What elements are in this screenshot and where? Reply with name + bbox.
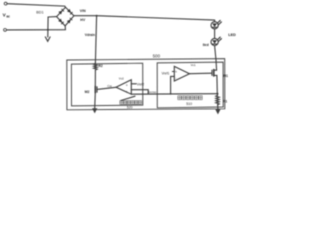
svg-text:510: 510: [186, 102, 192, 106]
diode D-TL of BD1: [58, 9, 64, 15]
wire R2 to M2 drain: [94, 70, 96, 86]
bridge rectifier BD1 diamond: [57, 7, 74, 26]
svg-text:M1: M1: [223, 74, 228, 78]
wire M2 source down: [94, 92, 97, 108]
wire between LEDs: [214, 29, 216, 39]
label VIN: [80, 9, 86, 13]
wire rail corner down to LED D1: [214, 20, 216, 22]
LED D1: [211, 22, 218, 29]
LED D1 emission arrows: [217, 21, 220, 24]
label LED: [228, 33, 236, 37]
svg-text:Vref2: Vref2: [137, 82, 145, 86]
terminal T2 (AC input bottom): [4, 29, 7, 32]
label 500: [153, 53, 161, 58]
sub-block box 510: [157, 62, 223, 108]
svg-text:R2: R2: [99, 64, 103, 68]
wire Vdrain vertical: [95, 16, 96, 63]
svg-text:-: -: [175, 76, 176, 80]
wire from T1 to bridge top vertex: [7, 4, 65, 8]
IC outer box 500: [67, 59, 225, 110]
label (chinese) current-limit control unit: [120, 101, 142, 105]
node junction dot M1 source / R1 / rail: [216, 93, 218, 95]
ground arrow (open): [45, 37, 50, 41]
op-amp OP2 plus input mark: [126, 83, 128, 87]
label Vref1: [162, 72, 170, 76]
resistor R2: [94, 63, 97, 71]
wire M2 gate to op-amp output: [97, 87, 116, 89]
svg-text:Vdrain: Vdrain: [85, 33, 95, 37]
op-amp OP2 minus input mark: [126, 89, 127, 93]
node junction J2 on VIN rail: [96, 15, 98, 17]
wire OP2 plus input stub: [131, 83, 136, 85]
wire OP1 minus input down to sense rail: [171, 76, 175, 94]
svg-text:Vc2: Vc2: [119, 76, 124, 80]
label Vdrain: [85, 33, 95, 37]
label Vref2: [137, 82, 145, 86]
wire vertical from bridge left vertex net down to ground: [47, 17, 49, 37]
wire R1 to ground: [217, 105, 219, 109]
ground arrow under M2: [92, 108, 97, 113]
label M1: [223, 74, 228, 78]
transistor M1: [211, 70, 213, 75]
label Vc2: [119, 76, 124, 80]
label R2: [99, 64, 103, 68]
svg-text:+: +: [126, 83, 128, 87]
node junction J1 (neutral/ground): [47, 29, 49, 31]
svg-text:LED: LED: [228, 33, 236, 37]
svg-text:R1: R1: [223, 100, 227, 104]
label Vac: [3, 13, 11, 19]
op-amp OP1 plus input mark: [175, 70, 177, 74]
wire OP2 minus input to sense rail: [131, 90, 148, 94]
transistor M2: [94, 86, 96, 92]
wire Vref1 stub to OP1 plus input: [172, 71, 174, 73]
wire M1 source to junction: [214, 75, 218, 93]
svg-text:+: +: [175, 70, 177, 74]
label Iled: [203, 43, 209, 47]
label Vc1: [191, 63, 196, 67]
svg-text:BD1: BD1: [36, 10, 43, 14]
label (chinese) constant-current control unit: [178, 96, 203, 100]
svg-text:Vc1: Vc1: [191, 63, 196, 67]
wire M1 drain from LED string: [214, 46, 217, 71]
wire stub to bridge left vertex: [48, 16, 57, 18]
label BD1: [36, 10, 43, 14]
svg-text:Iled: Iled: [203, 43, 209, 47]
svg-text:Sense: Sense: [148, 90, 157, 94]
label M2: [85, 90, 90, 94]
svg-text:500: 500: [153, 53, 161, 58]
LED D2: [211, 38, 218, 45]
svg-text:-: -: [126, 89, 127, 93]
label Sense: [148, 90, 157, 94]
diode D-TR of BD1: [67, 9, 73, 15]
diode D-BR of BD1: [67, 17, 73, 23]
label HV: [80, 18, 86, 22]
wire OP1 output to M1 gate: [190, 72, 213, 75]
ground arrow under R1: [215, 109, 220, 114]
wire current sense rail: [131, 93, 217, 96]
svg-text:HV: HV: [80, 18, 86, 22]
LED D2 emission arrows: [217, 37, 220, 40]
label 510: [186, 102, 192, 106]
svg-text:Vref1: Vref1: [162, 72, 170, 76]
op-amp OP1 (points right): [174, 66, 189, 81]
op-amp OP1 minus input mark: [175, 76, 176, 80]
svg-text:M2: M2: [85, 90, 90, 94]
svg-text:520: 520: [127, 105, 133, 109]
resistor R1: [216, 94, 219, 106]
wire VIN rail from bridge to LED string: [74, 16, 215, 20]
op-amp OP2 (points left): [116, 80, 131, 95]
label 520: [127, 105, 133, 109]
svg-text:Cst: Cst: [107, 84, 112, 88]
leader line left block: [121, 96, 135, 100]
label Cst: [107, 84, 112, 88]
terminal T1 (AC input top): [4, 2, 7, 5]
wire from T2 to bridge bottom vertex: [7, 26, 66, 30]
node dot OP1 minus on rail: [170, 93, 172, 95]
label R1: [223, 100, 227, 104]
svg-text:ac: ac: [6, 14, 10, 18]
sub-block box 520: [71, 63, 142, 106]
diode D-BL of BD1: [58, 19, 64, 25]
svg-text:VIN: VIN: [80, 9, 86, 13]
